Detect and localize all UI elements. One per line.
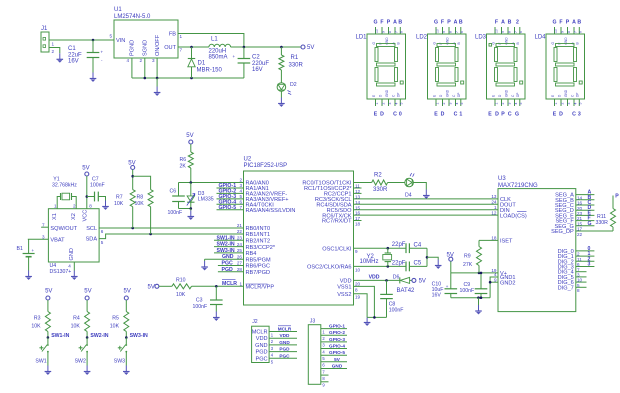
svg-text:RB5/PGM: RB5/PGM <box>246 257 272 263</box>
svg-text:GND: GND <box>504 89 508 97</box>
wire J3 pin 4 <box>321 348 347 350</box>
node GPIO-5 <box>217 209 244 211</box>
wire J3 pin 7 <box>321 368 347 370</box>
svg-text:2: 2 <box>381 103 385 105</box>
svg-text:2: 2 <box>52 49 55 54</box>
svg-text:+: + <box>446 284 449 289</box>
svg-text:4: 4 <box>68 264 71 269</box>
svg-text:10: 10 <box>435 29 439 33</box>
LD4 pin stub top/bottom 4 <box>573 27 575 34</box>
svg-text:18: 18 <box>355 222 361 227</box>
svg-text:2: 2 <box>560 103 564 105</box>
svg-text:PGC: PGC <box>222 261 233 267</box>
svg-text:GPIO-3: GPIO-3 <box>329 337 345 342</box>
svg-text:10: 10 <box>554 29 558 33</box>
digit segments LD2 <box>437 44 456 47</box>
svg-text:P: P <box>566 20 570 26</box>
svg-text:FB: FB <box>169 32 176 38</box>
svg-text:LD3: LD3 <box>475 35 487 41</box>
node GPIO-3 <box>217 198 244 200</box>
svg-text:330R: 330R <box>596 220 609 226</box>
svg-text:22: 22 <box>577 232 583 237</box>
svg-text:LD2: LD2 <box>416 35 428 41</box>
svg-text:B: B <box>577 20 581 26</box>
svg-text:PGD: PGD <box>279 347 290 352</box>
wire U1 ground pins <box>131 58 133 78</box>
capacitor C1 <box>92 39 95 42</box>
svg-text:16V: 16V <box>432 292 442 298</box>
svg-text:10K: 10K <box>31 324 41 330</box>
svg-text:0: 0 <box>399 112 402 118</box>
LD4 pin stub top/bottom 1 <box>554 27 556 34</box>
svg-text:SW1-IN: SW1-IN <box>217 235 235 241</box>
wire J2 PGD net <box>269 351 297 353</box>
svg-text:3: 3 <box>239 183 242 188</box>
wire J3 pin 8 <box>321 374 329 376</box>
LD1 pin stub top/bottom 5 <box>399 27 401 34</box>
inductor L1 <box>209 44 231 47</box>
node GPIO-1 <box>217 187 244 189</box>
svg-text:850mA: 850mA <box>209 55 228 61</box>
svg-text:SW2: SW2 <box>75 359 86 365</box>
svg-text:32.768kHz: 32.768kHz <box>52 182 77 188</box>
svg-text:8: 8 <box>577 288 580 293</box>
wire cap rail to ground <box>426 248 428 266</box>
ground net on RB5 <box>205 258 244 260</box>
svg-text:OSC2/CLKO/RA6: OSC2/CLKO/RA6 <box>307 265 351 271</box>
LD2 pin stub top/bottom 1 <box>435 27 437 34</box>
svg-text:D2: D2 <box>290 82 297 88</box>
svg-text:GND: GND <box>69 248 75 260</box>
svg-text:5V: 5V <box>419 279 426 285</box>
svg-text:5V: 5V <box>82 166 89 172</box>
svg-text:2: 2 <box>239 178 242 183</box>
svg-text:G: G <box>552 20 556 26</box>
svg-text:7: 7 <box>514 31 518 33</box>
svg-text:27: 27 <box>237 261 243 266</box>
svg-text:A: A <box>501 20 505 26</box>
capacitor C3 100nF <box>215 286 217 300</box>
svg-text:D6: D6 <box>393 274 400 280</box>
svg-text:12: 12 <box>491 210 497 215</box>
wire L1 to 5V terminal <box>231 46 301 48</box>
svg-text:8: 8 <box>355 287 358 292</box>
svg-text:BAT42: BAT42 <box>397 288 416 294</box>
digit segments LD3 <box>496 44 515 47</box>
svg-text:100nF: 100nF <box>389 308 404 314</box>
svg-text:5V: 5V <box>334 357 341 362</box>
wire OSC2 net <box>354 265 407 267</box>
svg-text:F: F <box>559 20 562 26</box>
svg-text:C2: C2 <box>252 55 260 61</box>
svg-text:SEG_DP: SEG_DP <box>551 229 574 235</box>
svg-text:SW2-IN: SW2-IN <box>90 333 108 339</box>
svg-text:VSS2: VSS2 <box>337 292 351 298</box>
svg-text:7: 7 <box>573 31 577 33</box>
svg-text:PIC18F252-I/SP: PIC18F252-I/SP <box>244 163 288 169</box>
svg-text:J1: J1 <box>41 26 48 32</box>
svg-text:C6: C6 <box>170 189 177 195</box>
svg-text:5: 5 <box>519 103 523 105</box>
svg-text:10K: 10K <box>114 201 124 207</box>
capacitor C10 10uF <box>450 273 452 289</box>
svg-text:DP: DP <box>516 93 520 97</box>
svg-text:GND: GND <box>385 89 389 97</box>
svg-text:6: 6 <box>239 200 242 205</box>
svg-text:3: 3 <box>152 58 155 63</box>
wire VSS1 to ground <box>354 286 375 317</box>
svg-text:SW1-IN: SW1-IN <box>51 333 69 339</box>
svg-text:9: 9 <box>355 249 358 254</box>
svg-text:16V: 16V <box>252 67 263 73</box>
svg-text:9: 9 <box>381 31 385 33</box>
wire J2 MCLR overline <box>278 325 291 327</box>
svg-text:9: 9 <box>494 277 497 282</box>
svg-text:PGC: PGC <box>255 356 267 362</box>
svg-text:G: G <box>434 20 438 26</box>
svg-text:DP: DP <box>397 93 401 97</box>
svg-text:9: 9 <box>560 31 564 33</box>
LD3 pin stub top/bottom 3 <box>507 27 509 34</box>
switch SW2 <box>86 338 88 345</box>
svg-text:VDD: VDD <box>280 333 291 338</box>
wire J3 pin 3 <box>321 341 347 343</box>
svg-text:5V: 5V <box>124 289 131 295</box>
node PGD <box>218 271 244 273</box>
node GPIO-4 <box>217 203 244 205</box>
svg-text:E: E <box>553 112 557 118</box>
diode D1 MBR-150 <box>190 46 193 49</box>
svg-text:P: P <box>501 112 505 118</box>
svg-text:ON/OFF: ON/OFF <box>155 34 161 56</box>
node PGC <box>218 265 244 267</box>
svg-text:5: 5 <box>460 103 464 105</box>
svg-text:R4: R4 <box>73 316 80 322</box>
LD1 pin stub top/bottom 4 <box>394 27 396 34</box>
svg-text:R2: R2 <box>374 173 382 179</box>
wire J3 pin 2 <box>321 334 347 336</box>
svg-text:LM2574N-5.0: LM2574N-5.0 <box>114 14 151 20</box>
svg-text:GND: GND <box>332 364 343 369</box>
svg-text:4: 4 <box>394 103 398 105</box>
svg-text:X1: X1 <box>52 213 58 220</box>
svg-text:6: 6 <box>101 229 104 234</box>
node SW3-IN <box>214 252 244 254</box>
svg-text:SCL: SCL <box>86 226 97 232</box>
svg-text:1: 1 <box>52 42 55 47</box>
svg-text:SW3: SW3 <box>114 359 125 365</box>
wire J1 pin2 to ground <box>49 48 60 54</box>
svg-text:D: D <box>495 112 499 118</box>
svg-text:SW3-IN: SW3-IN <box>130 333 148 339</box>
resistor R10 10K <box>172 284 192 289</box>
svg-text:1: 1 <box>180 34 183 39</box>
svg-text:20: 20 <box>355 281 361 286</box>
svg-text:B: B <box>459 20 463 26</box>
svg-text:PGD: PGD <box>222 267 233 273</box>
ground <box>156 78 158 87</box>
power terminal 5V <box>301 45 305 49</box>
digit segments LD1 <box>377 44 396 47</box>
svg-text:3: 3 <box>567 103 571 105</box>
LD1 pin stub top/bottom 1 <box>375 27 377 34</box>
svg-text:2: 2 <box>442 103 446 105</box>
ground <box>477 296 480 299</box>
svg-text:100nF: 100nF <box>460 288 475 294</box>
svg-text:C4: C4 <box>414 243 422 249</box>
svg-text:J3: J3 <box>310 319 316 325</box>
svg-text:5V: 5V <box>45 289 52 295</box>
svg-text:U2: U2 <box>244 157 252 163</box>
wire RC5 to U3 DIN <box>354 209 499 211</box>
svg-text:GPIO-5: GPIO-5 <box>219 205 237 211</box>
resistor R3 10K <box>47 300 49 311</box>
svg-text:26: 26 <box>237 254 243 259</box>
svg-text:6: 6 <box>579 31 583 33</box>
ground <box>123 366 130 375</box>
wire J3 pin 9 <box>321 381 329 383</box>
svg-text:21: 21 <box>237 223 243 228</box>
svg-text:27K: 27K <box>463 262 473 268</box>
svg-text:G: G <box>588 221 592 227</box>
svg-text:9: 9 <box>442 31 446 33</box>
switch SW1 <box>47 338 49 345</box>
svg-text:B: B <box>397 42 401 44</box>
svg-text:10K: 10K <box>110 324 120 330</box>
resistor R6 2K <box>188 152 193 168</box>
svg-text:3: 3 <box>588 262 591 268</box>
resistor R11 330R <box>612 227 614 231</box>
svg-text:SW2-IN: SW2-IN <box>217 242 235 248</box>
svg-text:+: + <box>32 248 35 253</box>
svg-text:A: A <box>454 20 458 26</box>
svg-text:22pF: 22pF <box>392 260 406 266</box>
svg-text:E: E <box>432 95 436 97</box>
svg-text:B1: B1 <box>17 246 23 252</box>
svg-text:D: D <box>441 112 445 118</box>
svg-text:5V: 5V <box>307 45 314 51</box>
svg-text:22: 22 <box>237 229 243 234</box>
ground <box>190 207 193 210</box>
node SW1-IN <box>47 336 50 339</box>
svg-text:GND: GND <box>255 343 267 349</box>
svg-text:R11: R11 <box>597 214 606 220</box>
svg-text:6: 6 <box>400 31 404 33</box>
svg-text:B: B <box>457 42 461 44</box>
LD3 left decimal mark <box>489 44 492 47</box>
resistor R8 10K pullup <box>133 176 151 189</box>
svg-text:1: 1 <box>239 281 242 286</box>
svg-text:8: 8 <box>89 204 92 209</box>
svg-text:23: 23 <box>237 236 243 241</box>
svg-text:MBR-150: MBR-150 <box>197 68 223 74</box>
svg-text:R6: R6 <box>180 157 187 163</box>
svg-text:E: E <box>434 112 438 118</box>
svg-text:100nF: 100nF <box>168 210 183 216</box>
LD1 pin stub top/bottom 3 <box>388 27 390 34</box>
ground <box>45 366 52 375</box>
resistor R9 27K <box>479 239 498 241</box>
LD1 pin stub top/bottom 2 <box>381 27 383 34</box>
power terminal 5V <box>412 278 416 282</box>
svg-text:C: C <box>508 112 512 118</box>
node GPIO-2 <box>217 192 244 194</box>
svg-text:C1: C1 <box>68 46 76 52</box>
svg-text:7: 7 <box>455 31 459 33</box>
resistor R2 330R <box>354 182 372 184</box>
svg-text:GPIO-2: GPIO-2 <box>329 330 345 335</box>
ground <box>71 271 78 280</box>
svg-text:PGND: PGND <box>130 40 136 56</box>
svg-text:LOAD(CS): LOAD(CS) <box>500 213 527 219</box>
svg-text:L1: L1 <box>211 37 218 43</box>
svg-text:GND: GND <box>564 89 568 97</box>
svg-text:SQW/OUT: SQW/OUT <box>50 226 77 232</box>
svg-text:C5: C5 <box>414 261 422 267</box>
svg-text:7: 7 <box>180 48 183 53</box>
capacitor C9 100nF <box>480 273 482 289</box>
LD4 pin stub top/bottom 2 <box>560 27 562 34</box>
resistor R1 330R <box>280 46 283 49</box>
digit segments LD4 <box>556 44 575 47</box>
wire FB feedback <box>178 34 244 48</box>
capacitor C4 22pF <box>405 243 407 253</box>
wire MCLR net <box>192 285 244 287</box>
svg-text:C: C <box>454 112 458 118</box>
wire OSC1 net <box>354 247 407 249</box>
diode D6 BAT42 <box>399 277 401 283</box>
switch SW3 <box>125 338 127 345</box>
svg-text:SDA: SDA <box>86 237 98 243</box>
svg-text:DP: DP <box>576 93 580 97</box>
svg-text:1: 1 <box>494 103 498 105</box>
LD2 pin stub top/bottom 2 <box>442 27 444 34</box>
LD2 pin stub top/bottom 4 <box>455 27 457 34</box>
svg-text:1: 1 <box>459 112 462 118</box>
svg-text:GPIO-1: GPIO-1 <box>329 324 345 329</box>
svg-text:ISET: ISET <box>500 239 513 245</box>
wire SEG_DP to R11 <box>576 230 613 232</box>
crystal Y2 10MHz <box>387 248 389 253</box>
svg-text:GND: GND <box>445 89 449 97</box>
svg-text:9: 9 <box>501 31 505 33</box>
svg-text:DIG_7: DIG_7 <box>558 285 574 291</box>
svg-text:5V: 5V <box>186 133 193 139</box>
svg-text:10K: 10K <box>176 292 186 298</box>
svg-text:R10: R10 <box>176 278 186 284</box>
svg-text:B: B <box>576 42 580 44</box>
resistor R4 10K <box>86 300 88 311</box>
ground <box>90 73 97 82</box>
svg-text:U1: U1 <box>114 7 122 13</box>
svg-text:LD4: LD4 <box>535 35 547 41</box>
svg-text:4: 4 <box>573 103 577 105</box>
svg-text:+: + <box>233 54 236 59</box>
svg-text:3: 3 <box>578 112 581 118</box>
svg-text:B: B <box>508 20 512 26</box>
svg-text:A: A <box>393 20 397 26</box>
svg-text:7: 7 <box>394 31 398 33</box>
svg-text:RB3/CCP2*: RB3/CCP2* <box>246 245 276 251</box>
wire RC6 to U3 LOAD <box>354 214 499 216</box>
svg-text:B: B <box>398 20 402 26</box>
svg-text:10K: 10K <box>135 201 145 207</box>
svg-text:SGND: SGND <box>143 40 149 56</box>
wire RA0 net <box>179 182 244 184</box>
svg-text:5: 5 <box>579 103 583 105</box>
ground <box>435 260 442 269</box>
svg-text:10: 10 <box>375 29 379 33</box>
svg-text:8: 8 <box>507 31 511 33</box>
svg-text:G: G <box>515 112 519 118</box>
capacitor C2 <box>243 46 246 49</box>
node SW3-IN <box>125 336 128 339</box>
capacitor C5 22pF <box>405 262 407 272</box>
svg-text:D1: D1 <box>198 61 206 67</box>
svg-text:P: P <box>615 194 619 200</box>
svg-text:RC7/RX/DT: RC7/RX/DT <box>322 219 352 225</box>
svg-text:RB1/INT1: RB1/INT1 <box>246 232 271 238</box>
wire D4 to ground <box>413 183 426 190</box>
wire ground rail U3 <box>451 297 490 299</box>
svg-text:2: 2 <box>501 103 505 105</box>
svg-text:SW1: SW1 <box>35 359 46 365</box>
node SW2-IN <box>86 336 89 339</box>
svg-text:1: 1 <box>54 204 57 209</box>
LED D2 <box>277 83 286 92</box>
wire J3 pin 5 <box>321 354 347 356</box>
svg-text:3: 3 <box>388 103 392 105</box>
svg-text:E: E <box>374 112 378 118</box>
svg-text:E: E <box>488 112 492 118</box>
svg-text:3: 3 <box>448 103 452 105</box>
wire RC4 to U3 DOUT <box>354 203 499 205</box>
node SW1-IN <box>214 239 244 241</box>
wire U4 GND pin <box>73 262 75 271</box>
LD3 pin stub top/bottom 4 <box>514 27 516 34</box>
svg-text:8: 8 <box>388 31 392 33</box>
svg-text:MCLR/VPP: MCLR/VPP <box>246 285 275 291</box>
svg-text:LM335: LM335 <box>198 197 214 203</box>
node SW2-IN <box>214 246 244 248</box>
svg-text:MAX7219CNG: MAX7219CNG <box>498 183 538 189</box>
svg-text:E: E <box>372 95 376 97</box>
svg-text:J2: J2 <box>252 319 258 325</box>
svg-text:7: 7 <box>239 205 242 210</box>
svg-text:VCC: VCC <box>82 210 88 222</box>
svg-text:13: 13 <box>491 194 497 199</box>
wire J2 GND net <box>269 344 297 346</box>
svg-text:F: F <box>441 20 444 26</box>
svg-text:B: B <box>516 42 520 44</box>
svg-text:G: G <box>373 20 377 26</box>
LD2 pin stub top/bottom 5 <box>460 27 462 34</box>
ground <box>423 190 430 199</box>
svg-text:19: 19 <box>355 295 361 300</box>
svg-text:5: 5 <box>101 240 104 245</box>
wire J3 pin 1 <box>321 328 347 330</box>
svg-text:RA5/AN4/SS/LVDIN: RA5/AN4/SS/LVDIN <box>246 208 296 214</box>
LD3 pin stub top/bottom 5 <box>519 27 521 34</box>
svg-text:+: + <box>101 50 104 55</box>
svg-text:RB2/INT2: RB2/INT2 <box>246 239 271 245</box>
svg-text:GND: GND <box>222 254 234 260</box>
svg-text:VDD: VDD <box>369 274 380 280</box>
svg-text:F: F <box>495 20 498 26</box>
LD4 pin stub top/bottom 5 <box>578 27 580 34</box>
LD2 pin stub top/bottom 3 <box>448 27 450 34</box>
svg-text:4: 4 <box>126 58 129 63</box>
